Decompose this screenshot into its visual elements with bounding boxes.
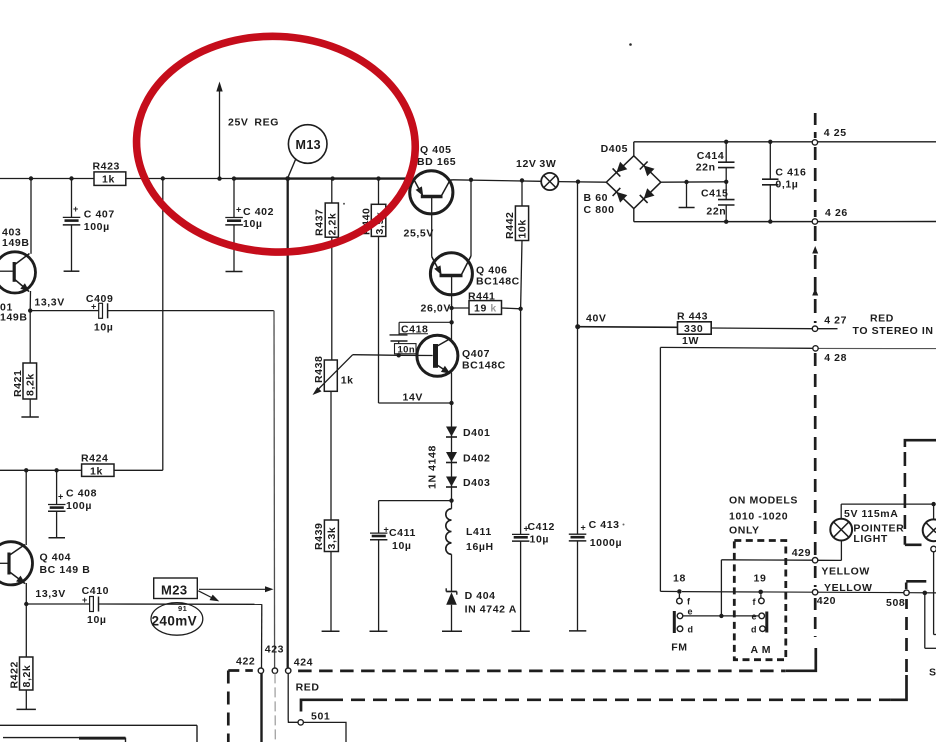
svg-text:+: + <box>581 523 587 533</box>
svg-text:10µ: 10µ <box>94 322 114 334</box>
node diode chain C411 <box>449 498 453 502</box>
svg-text:100µ: 100µ <box>84 221 110 233</box>
svg-text:R439: R439 <box>313 522 325 550</box>
svg-text:+: + <box>58 492 64 502</box>
svg-text:0,1µ: 0,1µ <box>775 179 798 191</box>
25V REG arrow <box>216 82 279 179</box>
svg-text:25,5V: 25,5V <box>404 228 434 240</box>
svg-text:IN 4742 A: IN 4742 A <box>465 604 517 616</box>
wire 422 continuation down <box>260 673 262 742</box>
capacitor C412 <box>512 309 556 632</box>
pointer lamp right <box>923 519 936 541</box>
node 40V tap at lamp rail <box>576 180 580 184</box>
capacitor C414 <box>696 140 735 200</box>
dash-dot box upper right <box>905 440 936 545</box>
svg-text:+: + <box>73 204 79 214</box>
terminal below right lamp <box>931 546 936 634</box>
svg-text:C409: C409 <box>86 293 114 305</box>
bridge rectifier D405 <box>584 143 661 216</box>
node 13,3V lower <box>24 588 66 606</box>
svg-text:BD 165: BD 165 <box>417 156 456 168</box>
svg-text:C415: C415 <box>701 187 729 199</box>
node bus right of Q405 <box>469 178 473 182</box>
svg-text:1k: 1k <box>341 375 354 387</box>
capacitor C407 <box>63 179 115 272</box>
svg-text:4 25: 4 25 <box>824 127 847 139</box>
svg-text:d: d <box>751 625 757 635</box>
wire e line FM to AM <box>683 614 759 618</box>
wire 40V rail R443 <box>575 312 677 329</box>
terminal 428 <box>813 346 847 364</box>
bottom-left partial frame lines <box>0 725 197 742</box>
svg-text:YELLOW: YELLOW <box>824 582 873 594</box>
resistor R422 <box>8 604 36 709</box>
scan speck mid right <box>623 524 625 526</box>
wire lamp to bridge <box>558 181 606 184</box>
wire YELLOW 420 line <box>682 592 936 593</box>
wire to C411 <box>379 500 452 502</box>
svg-text:1k: 1k <box>90 466 103 478</box>
svg-text:429: 429 <box>792 547 811 559</box>
harness dashed y671 <box>298 670 786 673</box>
wire bridge middle rail <box>661 181 726 183</box>
resistor R439 <box>313 391 340 631</box>
transistor Q405 <box>404 144 457 256</box>
AM dashed box <box>734 541 786 660</box>
diode D402 <box>427 445 491 489</box>
svg-text:R437: R437 <box>314 208 326 236</box>
node bus 25V arrow <box>217 176 221 180</box>
svg-text:13,3V: 13,3V <box>35 588 65 600</box>
svg-text:RED: RED <box>870 313 894 325</box>
node 14V <box>403 391 454 405</box>
transistor Q404 <box>0 470 90 604</box>
svg-text:10µ: 10µ <box>243 218 263 230</box>
node 13,3V upper <box>28 296 65 313</box>
diode D401 <box>446 403 491 501</box>
capacitor C415 <box>701 187 735 224</box>
wire bus down to R424 <box>162 179 164 471</box>
terminal 424 <box>286 657 314 674</box>
terminal 426 <box>812 207 848 224</box>
svg-text:4 27: 4 27 <box>824 315 847 327</box>
resistor R442 <box>504 180 529 308</box>
svg-text:10µ: 10µ <box>392 540 412 552</box>
meter point M23 <box>154 578 274 601</box>
wire heavy vertical bus to 424 <box>287 179 289 668</box>
lamp 12V 3W <box>516 158 558 190</box>
svg-text:1010 -1020: 1010 -1020 <box>729 510 788 522</box>
terminal 427 <box>812 313 933 337</box>
svg-text:16µH: 16µH <box>466 541 494 553</box>
terminal 420 <box>812 590 836 608</box>
capacitor C413 <box>569 182 622 631</box>
inductor L411 <box>446 501 494 591</box>
harness dashed left corner x228 <box>228 671 253 742</box>
svg-text:10k: 10k <box>517 219 529 238</box>
svg-text:LIGHT: LIGHT <box>853 533 888 545</box>
harness dashed vertical x815 <box>786 113 818 671</box>
svg-text:8,2k: 8,2k <box>25 373 37 396</box>
annotation red ellipse <box>132 30 420 258</box>
ground chassis at bridge <box>679 180 695 208</box>
svg-text:508: 508 <box>886 597 905 609</box>
svg-text:10µ: 10µ <box>530 533 550 545</box>
svg-text:ONLY: ONLY <box>729 524 760 536</box>
svg-text:M23: M23 <box>161 583 188 598</box>
svg-text:R422: R422 <box>8 661 20 689</box>
svg-text:C 416: C 416 <box>775 167 806 179</box>
node bus C402 <box>232 176 236 180</box>
svg-text:14V: 14V <box>403 391 423 403</box>
wire e-contact riser to 429 <box>721 560 812 616</box>
svg-text:S: S <box>929 667 936 679</box>
wire 423 continuation down faint <box>274 673 276 742</box>
svg-text:Q 405: Q 405 <box>420 144 452 156</box>
svg-text:R438: R438 <box>313 355 325 383</box>
svg-text:149B: 149B <box>2 237 30 249</box>
label ON MODELS <box>729 494 798 536</box>
terminal 429 <box>792 547 818 563</box>
svg-text:YELLOW: YELLOW <box>821 565 870 577</box>
svg-text:D 404: D 404 <box>465 590 496 602</box>
capacitor C416 <box>762 140 806 224</box>
svg-text:C 407: C 407 <box>84 208 115 220</box>
wire 14V rail <box>379 402 452 404</box>
scan speck top middle <box>629 43 632 46</box>
svg-text:2,2k: 2,2k <box>326 213 338 236</box>
wire 501 to right down <box>303 722 346 742</box>
svg-text:e: e <box>752 612 757 622</box>
svg-text:5V 115mA: 5V 115mA <box>844 508 898 520</box>
resistor R423 <box>93 160 126 185</box>
node bus main vertical <box>285 176 290 181</box>
svg-text:1000µ: 1000µ <box>590 537 622 549</box>
svg-text:BC148C: BC148C <box>476 276 520 288</box>
wire bus to lamp <box>453 180 541 182</box>
transistor Q406 <box>430 253 519 308</box>
svg-text:A M: A M <box>751 644 772 656</box>
svg-text:19 k: 19 k <box>474 303 497 315</box>
capacitor C402 <box>225 179 274 272</box>
svg-text:R423: R423 <box>93 160 121 172</box>
svg-text:330: 330 <box>684 323 703 335</box>
svg-text:18: 18 <box>673 572 686 584</box>
node 26,0V <box>421 302 454 314</box>
svg-text:1k: 1k <box>102 174 115 186</box>
svg-text:12V 3W: 12V 3W <box>516 158 556 170</box>
svg-text:D401: D401 <box>463 427 491 439</box>
wire 13,3V line to C409 <box>30 310 89 312</box>
svg-text:ON MODELS: ON MODELS <box>729 494 798 506</box>
dash-dot box lower right <box>906 581 926 589</box>
switch AM contacts e d <box>751 612 772 656</box>
node right lamp return <box>923 591 936 649</box>
zener diode D404 <box>442 588 517 631</box>
svg-text:M13: M13 <box>296 138 322 152</box>
meter label 240mV <box>151 603 203 636</box>
resistor R440 <box>360 179 386 403</box>
node bus C407 <box>69 176 73 180</box>
wire 429 to pointer lamp <box>818 540 842 560</box>
svg-text:26,0V: 26,0V <box>421 302 451 314</box>
svg-text:TO STEREO IN: TO STEREO IN <box>853 325 934 337</box>
switch FM terminal 18 <box>673 572 691 606</box>
svg-text:240mV: 240mV <box>152 614 198 629</box>
wire bridge bottom rail 426 <box>634 209 936 222</box>
node bus R424 branch <box>161 176 165 180</box>
svg-text:L411: L411 <box>466 526 492 538</box>
measure point M13 <box>288 125 327 178</box>
terminal 423 <box>265 643 284 673</box>
svg-text:13,3V: 13,3V <box>34 296 64 308</box>
scan speck near R437 <box>343 203 345 205</box>
svg-text:D402: D402 <box>463 453 491 465</box>
transistor Q403 <box>0 179 36 324</box>
svg-text:C 413: C 413 <box>589 519 620 531</box>
svg-text:R441: R441 <box>468 291 496 303</box>
svg-text:Q 404: Q 404 <box>40 552 72 564</box>
svg-text:1N 4148: 1N 4148 <box>427 445 439 489</box>
terminal 508 <box>886 590 909 609</box>
svg-text:3,3k: 3,3k <box>326 527 338 550</box>
svg-text:C414: C414 <box>697 150 725 162</box>
diode D403 <box>446 477 491 490</box>
capacitor C408 <box>48 470 97 538</box>
svg-text:4 26: 4 26 <box>825 207 848 219</box>
node R424 left <box>24 468 28 472</box>
wire main 25V bus left thin <box>0 178 233 180</box>
switch FM contacts e d <box>671 607 693 654</box>
svg-text:C411: C411 <box>389 527 416 539</box>
node Q407 base <box>397 353 401 357</box>
svg-text:501: 501 <box>311 710 330 722</box>
svg-text:149B: 149B <box>0 312 28 324</box>
svg-text:8,2k: 8,2k <box>21 665 33 688</box>
resistor R424 <box>81 452 163 477</box>
svg-text:22n: 22n <box>696 162 716 174</box>
wire R424 rail <box>0 469 82 471</box>
node C418 top <box>449 320 453 324</box>
svg-text:C 800: C 800 <box>584 204 615 216</box>
svg-text:40V: 40V <box>586 312 606 324</box>
svg-text:10µ: 10µ <box>87 614 107 626</box>
wire bridge top rail 425 <box>634 142 936 156</box>
svg-text:BC148C: BC148C <box>462 359 506 371</box>
node bus R440 <box>376 176 380 180</box>
node bus Q403 collector <box>29 176 33 180</box>
svg-text:R 443: R 443 <box>677 310 708 322</box>
node R441 R442 C412 <box>518 307 522 311</box>
svg-text:1W: 1W <box>682 335 699 347</box>
svg-text:C418: C418 <box>401 323 429 335</box>
transistor Q407 <box>399 322 506 403</box>
svg-text:19: 19 <box>754 572 767 584</box>
terminal 501 <box>298 710 330 725</box>
svg-text:422: 422 <box>236 655 255 667</box>
wire 5V rail <box>841 502 936 520</box>
node bus R437 <box>330 176 334 180</box>
svg-text:f: f <box>753 597 757 607</box>
switch AM terminal 19 <box>753 572 767 607</box>
svg-text:D405: D405 <box>601 143 629 155</box>
svg-text:25V REG: 25V REG <box>228 116 279 128</box>
wire 13,3V line down to 423 <box>273 311 276 668</box>
svg-text:e: e <box>688 607 693 617</box>
capacitor C418 <box>390 322 452 355</box>
harness dashed y700 <box>301 599 907 712</box>
svg-text:100µ: 100µ <box>66 500 92 512</box>
resistor R443 <box>677 310 812 347</box>
svg-text:C412: C412 <box>528 521 556 533</box>
wire C410 line down to 422 <box>261 604 263 668</box>
resistor R441 <box>452 291 521 315</box>
terminal 425 <box>812 127 846 145</box>
svg-text:91: 91 <box>178 604 187 613</box>
svg-text:B 60: B 60 <box>584 192 609 204</box>
node C408 tap <box>54 468 58 472</box>
svg-text:R421: R421 <box>12 369 24 397</box>
svg-text:f: f <box>687 597 691 607</box>
svg-text:d: d <box>688 625 694 635</box>
capacitor C410 <box>82 585 262 626</box>
wire 424 to 501 <box>288 673 319 722</box>
svg-text:Q407: Q407 <box>462 348 490 360</box>
svg-text:22n: 22n <box>706 206 726 218</box>
svg-text:R442: R442 <box>504 211 516 239</box>
capacitor C411 <box>370 501 416 632</box>
svg-text:4 28: 4 28 <box>824 352 847 364</box>
terminal 422 <box>236 655 264 673</box>
node bus R442 <box>520 178 524 182</box>
svg-text:C 408: C 408 <box>66 488 97 500</box>
wire 13,3V to C410 <box>26 603 89 605</box>
svg-text:424: 424 <box>294 657 313 669</box>
svg-text:R424: R424 <box>81 452 109 464</box>
svg-text:423: 423 <box>265 643 284 655</box>
svg-text:C 402: C 402 <box>243 206 274 218</box>
svg-text:C410: C410 <box>82 585 110 597</box>
resistor R437 <box>314 179 339 360</box>
capacitor C409 <box>86 293 274 334</box>
svg-text:RED: RED <box>296 681 320 693</box>
svg-text:BC 149 B: BC 149 B <box>40 564 91 576</box>
wire main 25V bus thick middle <box>233 177 411 179</box>
svg-text:+: + <box>236 205 242 215</box>
pointer lamp left <box>830 504 904 545</box>
svg-text:FM: FM <box>671 642 687 654</box>
wire 428 line <box>660 347 936 591</box>
trimmer R438 <box>313 355 399 395</box>
svg-text:D403: D403 <box>463 477 491 489</box>
svg-text:420: 420 <box>817 595 836 607</box>
wire Q406 to bus vertical <box>470 180 472 256</box>
resistor R421 <box>12 311 39 417</box>
wire Q406 emitter node down <box>451 308 453 322</box>
